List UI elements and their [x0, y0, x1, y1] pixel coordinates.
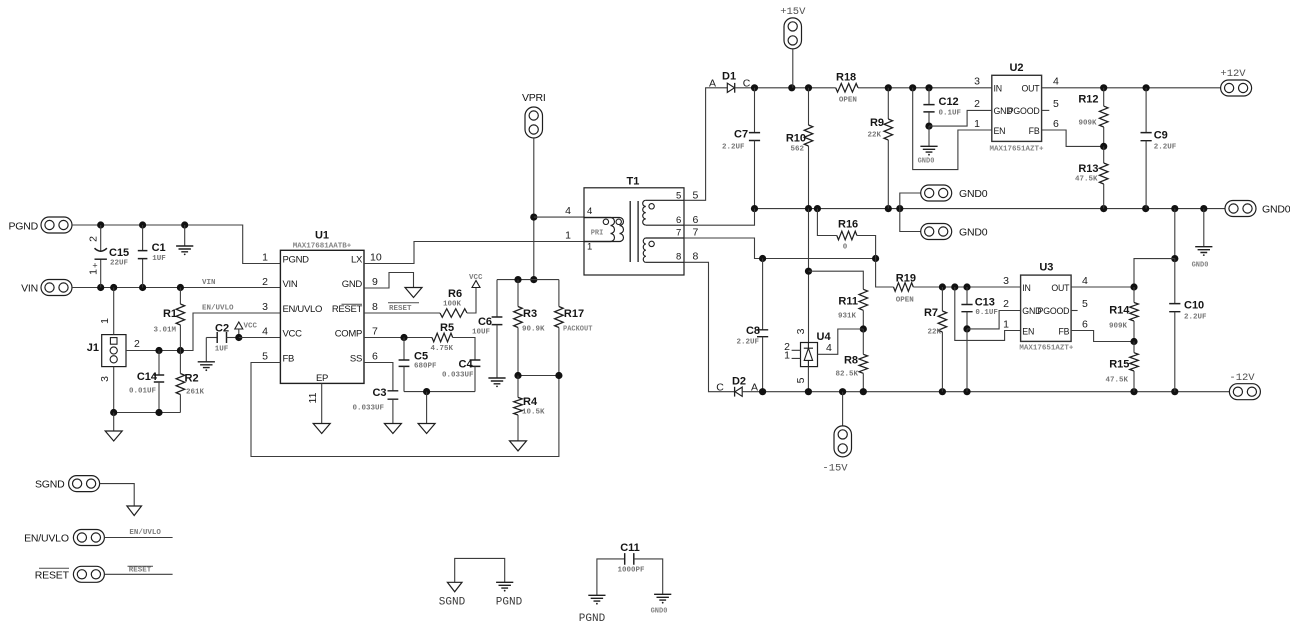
svg-text:680PF: 680PF — [414, 363, 437, 371]
svg-text:C9: C9 — [1154, 130, 1168, 142]
svg-text:C6: C6 — [478, 316, 492, 328]
svg-text:MAX17651AZT+: MAX17651AZT+ — [1019, 345, 1074, 353]
capacitor C11 1000PF — [597, 542, 663, 595]
svg-text:4: 4 — [587, 206, 592, 217]
svg-text:6: 6 — [372, 351, 378, 363]
svg-text:3: 3 — [974, 76, 980, 88]
op-amp U3 MAX17651AZT+ LDO negative — [1003, 262, 1088, 353]
diode D2 — [716, 375, 758, 396]
svg-text:261K: 261K — [186, 389, 205, 397]
svg-text:PRI: PRI — [591, 230, 604, 238]
wire T1 pin 6 to GND0 rail — [684, 209, 755, 226]
svg-text:SS: SS — [350, 354, 362, 365]
wire U3 OUT to R14 — [1071, 286, 1134, 288]
wire U2 OUT rail +12V — [1042, 84, 1221, 91]
svg-text:1: 1 — [262, 252, 268, 264]
wire U4 pin 4 to divider mid — [818, 329, 864, 354]
svg-text:VIN: VIN — [202, 279, 216, 287]
ground PGND symbol at C11 left — [579, 595, 606, 625]
svg-text:RESET: RESET — [35, 569, 70, 581]
svg-text:3: 3 — [262, 301, 268, 313]
wire J1 pin3 ground rail — [110, 367, 180, 417]
connector EN/UVLO — [24, 530, 104, 546]
svg-text:2: 2 — [88, 236, 100, 242]
svg-text:1000PF: 1000PF — [618, 567, 646, 575]
svg-text:0.1UF: 0.1UF — [975, 309, 998, 317]
connector VIN (J-VIN) — [21, 280, 72, 296]
svg-text:EP: EP — [316, 373, 328, 384]
svg-text:7: 7 — [693, 227, 699, 239]
wire RESET net stub — [104, 566, 172, 574]
svg-text:IN: IN — [1022, 283, 1030, 293]
svg-text:+12V: +12V — [1220, 68, 1246, 80]
svg-text:R3: R3 — [523, 308, 537, 320]
capacitor C13 0.1UF — [961, 287, 998, 333]
svg-text:C11: C11 — [620, 542, 640, 554]
wire R19 branch from pin7 rail — [876, 259, 894, 288]
capacitor C4 0.033UF — [442, 359, 480, 392]
resistor R16 0 ohm — [817, 209, 875, 259]
wire GND0 rail — [751, 205, 1225, 212]
svg-text:VCC: VCC — [283, 329, 303, 340]
resistor R6 100K on RESET — [364, 288, 476, 318]
svg-text:PACKOUT: PACKOUT — [563, 326, 592, 334]
wire U1 LX pin 10 to T1 pin 1 — [364, 242, 584, 264]
svg-text:VCC: VCC — [469, 274, 483, 282]
wire J1 pin1 from VIN — [113, 288, 115, 335]
svg-text:J1: J1 — [87, 342, 99, 354]
svg-text:GND: GND — [342, 279, 363, 290]
svg-text:RESET: RESET — [332, 304, 363, 315]
connector -12V — [1229, 372, 1260, 400]
svg-text:PGOOD: PGOOD — [1008, 106, 1040, 116]
svg-text:U2: U2 — [1009, 62, 1023, 74]
svg-text:1: 1 — [565, 230, 571, 242]
svg-text:3: 3 — [99, 376, 111, 382]
svg-text:1: 1 — [974, 118, 980, 130]
svg-text:RESET: RESET — [389, 305, 412, 313]
svg-text:8: 8 — [372, 301, 378, 313]
power VCC arrow at U1 VCC pin — [235, 322, 281, 341]
wire U2 PGOOD stub — [1042, 109, 1050, 111]
svg-text:D1: D1 — [722, 71, 736, 83]
op-amp U2 MAX17651AZT+ LDO — [974, 62, 1059, 154]
svg-text:R2: R2 — [185, 373, 199, 385]
svg-text:3: 3 — [1003, 275, 1009, 287]
svg-text:EN: EN — [994, 126, 1006, 136]
svg-text:2.2UF: 2.2UF — [722, 144, 745, 152]
svg-text:R6: R6 — [448, 288, 462, 300]
svg-text:EN/UVLO: EN/UVLO — [283, 304, 323, 315]
svg-text:562: 562 — [790, 146, 804, 154]
svg-text:0.01UF: 0.01UF — [129, 388, 157, 396]
svg-text:+: + — [92, 261, 97, 271]
svg-text:5: 5 — [1053, 98, 1059, 110]
svg-text:1: 1 — [99, 318, 111, 324]
svg-text:6: 6 — [1082, 319, 1088, 331]
ground SGND triangle below J1 — [105, 413, 122, 442]
svg-text:FB: FB — [283, 354, 295, 365]
wire U1 EP pin 11 to ground — [307, 383, 330, 433]
svg-text:1UF: 1UF — [215, 346, 229, 354]
svg-text:3: 3 — [795, 328, 807, 334]
svg-text:PGND: PGND — [283, 255, 310, 266]
capacitor C8 2.2UF — [736, 259, 768, 392]
svg-text:909K: 909K — [1078, 120, 1097, 128]
svg-text:PGND: PGND — [8, 221, 38, 233]
svg-text:10.5K: 10.5K — [522, 409, 545, 417]
svg-text:EN/UVLO: EN/UVLO — [24, 533, 69, 545]
connector GND0 right — [1225, 201, 1290, 217]
wire GND0 to U3 OUT node — [1130, 209, 1178, 291]
svg-text:2.2UF: 2.2UF — [1184, 314, 1207, 322]
svg-text:C1: C1 — [152, 242, 166, 254]
svg-text:1: 1 — [784, 350, 790, 362]
svg-text:R11: R11 — [838, 296, 858, 308]
svg-text:IN: IN — [994, 84, 1002, 94]
svg-text:GND0: GND0 — [918, 158, 935, 166]
svg-text:0.1UF: 0.1UF — [939, 110, 962, 118]
resistor R1 3.01M — [153, 288, 184, 351]
wire EN/UVLO net stub — [104, 529, 172, 538]
svg-text:R16: R16 — [838, 219, 858, 231]
resistor R13 47.5K — [1075, 146, 1108, 208]
svg-text:MAX17681AATB+: MAX17681AATB+ — [293, 242, 352, 250]
resistor R17 PACKOUT — [555, 280, 593, 376]
svg-text:R13: R13 — [1078, 163, 1098, 175]
svg-text:R4: R4 — [523, 396, 538, 408]
wire R10 lower column / U4 ref node — [805, 209, 812, 343]
svg-text:GND0: GND0 — [1262, 204, 1290, 216]
capacitor C9 2.2UF — [1141, 88, 1177, 209]
svg-text:R5: R5 — [440, 322, 454, 334]
resistor R3 90.9K — [514, 280, 545, 376]
svg-text:47.5K: 47.5K — [1075, 176, 1098, 184]
wire U3 FB to divider — [1071, 331, 1134, 342]
svg-text:22K: 22K — [927, 329, 941, 337]
svg-text:4: 4 — [565, 205, 571, 217]
wire J1 pin2 node EN/UVLO divider — [126, 305, 280, 355]
svg-text:5: 5 — [693, 190, 699, 202]
svg-text:EN: EN — [1022, 327, 1034, 337]
svg-text:9: 9 — [372, 276, 378, 288]
svg-text:1UF: 1UF — [152, 255, 166, 263]
svg-text:0: 0 — [843, 244, 848, 252]
resistor R19 OPEN — [894, 273, 1021, 305]
svg-text:0.033UF: 0.033UF — [442, 372, 474, 380]
svg-text:C2: C2 — [215, 323, 229, 335]
svg-text:2.2UF: 2.2UF — [736, 339, 759, 347]
resistor R5 4.75K COMP network — [364, 322, 475, 360]
svg-text:8: 8 — [693, 251, 699, 263]
resistor R15 47.5K — [1105, 342, 1138, 392]
resistor R11 931K — [838, 289, 868, 332]
svg-text:82.5K: 82.5K — [835, 371, 858, 379]
wire VPRI to primary node — [530, 138, 537, 283]
connector J1 3-pin header — [87, 318, 140, 382]
svg-text:R18: R18 — [836, 72, 856, 84]
ground GND0 symbol at C11 right — [651, 594, 672, 615]
capacitor C6 10UF — [472, 280, 518, 378]
wire VPRI divider node — [514, 276, 559, 283]
wire T1 pin 4 from VPRI — [534, 216, 584, 218]
svg-text:4: 4 — [826, 342, 832, 354]
svg-text:4: 4 — [1082, 275, 1088, 287]
wire to R11 top — [809, 271, 864, 289]
wire U3 EN tie to input rail — [955, 287, 1021, 340]
diode D1 — [709, 71, 751, 93]
svg-text:90.9K: 90.9K — [522, 326, 545, 334]
wire R3/R17 bottom junction — [514, 372, 562, 379]
svg-text:GND0: GND0 — [959, 227, 988, 239]
resistor R9 22K — [867, 88, 892, 209]
svg-text:GND0: GND0 — [959, 188, 988, 200]
svg-text:SGND: SGND — [439, 597, 466, 609]
svg-text:R10: R10 — [786, 133, 806, 145]
wire T1 pin 7 rail — [684, 238, 879, 262]
svg-text:EN/UVLO: EN/UVLO — [202, 305, 234, 313]
connector GND0 upper — [900, 185, 988, 209]
svg-text:22UF: 22UF — [110, 260, 129, 268]
connector +12V — [1220, 68, 1251, 96]
svg-text:22K: 22K — [867, 132, 881, 140]
resistor R8 82.5K — [835, 329, 867, 392]
capacitor C7 2.2UF — [722, 88, 760, 209]
svg-text:+15V: +15V — [780, 6, 806, 18]
wire VIN rail to U1 pin 2 — [72, 279, 280, 291]
svg-text:5: 5 — [795, 377, 807, 383]
transformer T1 — [565, 176, 698, 276]
svg-text:RESET: RESET — [129, 567, 152, 575]
wire U3 PGOOD stub — [1071, 310, 1078, 312]
op-amp U1 MAX17681AATB+ dc-dc controller — [262, 230, 382, 384]
svg-text:FB: FB — [1029, 126, 1040, 136]
svg-text:-15V: -15V — [822, 463, 848, 475]
svg-text:2: 2 — [262, 276, 268, 288]
wire T1 pin 8 to D2 — [684, 262, 734, 391]
wire C12 node to U2 GND pin — [929, 110, 992, 126]
svg-text:GND0: GND0 — [1192, 262, 1209, 270]
ground PGND symbol on input rail — [176, 225, 193, 255]
svg-text:7: 7 — [372, 326, 378, 338]
transistor U4 shunt reference — [784, 328, 832, 383]
svg-text:47.5K: 47.5K — [1105, 377, 1128, 385]
svg-text:5: 5 — [1082, 298, 1088, 310]
svg-text:C5: C5 — [414, 351, 428, 363]
connector SGND — [35, 476, 100, 492]
connector -15V — [822, 392, 851, 475]
svg-text:C10: C10 — [1184, 300, 1204, 312]
svg-text:10UF: 10UF — [472, 329, 491, 337]
capacitor C10 2.2UF — [1169, 259, 1207, 392]
svg-text:2: 2 — [974, 98, 980, 110]
resistor R18 OPEN — [836, 72, 858, 105]
svg-text:C3: C3 — [372, 387, 386, 399]
wire SGND to ground — [100, 484, 142, 516]
svg-text:OUT: OUT — [1051, 283, 1070, 293]
svg-text:909K: 909K — [1109, 323, 1128, 331]
svg-text:6: 6 — [693, 214, 699, 226]
svg-text:VPRI: VPRI — [522, 92, 546, 104]
svg-text:4: 4 — [262, 326, 268, 338]
wire -15V -12V rail — [742, 388, 1229, 395]
wire U2 FB to divider — [1042, 130, 1104, 146]
svg-text:C: C — [716, 381, 724, 393]
svg-text:C8: C8 — [746, 325, 760, 337]
svg-text:8: 8 — [676, 252, 681, 263]
power VCC arrow at R6 — [469, 274, 483, 288]
resistor R12 909K — [1078, 88, 1108, 150]
svg-text:VIN: VIN — [21, 283, 38, 295]
capacitor C12 0.1UF — [923, 88, 961, 130]
wire U4 pin 5 to -15V rail — [807, 367, 809, 392]
capacitor C14 0.01UF — [129, 351, 164, 413]
connector PGND (J-PGND) — [8, 217, 72, 233]
svg-text:MAX17651AZT+: MAX17651AZT+ — [989, 146, 1044, 154]
resistor R2 261K — [176, 351, 204, 413]
svg-text:R8: R8 — [844, 355, 858, 367]
svg-text:10: 10 — [370, 252, 382, 264]
svg-text:C13: C13 — [975, 297, 995, 309]
svg-text:R9: R9 — [870, 117, 884, 129]
svg-text:PGOOD: PGOOD — [1038, 306, 1070, 316]
svg-text:FB: FB — [1058, 327, 1069, 337]
svg-text:1: 1 — [1003, 319, 1009, 331]
wire C13 node to -12V rail — [966, 329, 968, 392]
svg-text:OUT: OUT — [1022, 84, 1041, 94]
svg-text:GND0: GND0 — [651, 608, 668, 616]
svg-text:D2: D2 — [732, 375, 746, 387]
wire +15V rail — [735, 84, 992, 91]
wire PGND rail to U1 pin 1 — [72, 221, 280, 263]
svg-text:PGND: PGND — [496, 597, 523, 609]
resistor R4 10.5K — [510, 376, 546, 451]
svg-text:7: 7 — [676, 228, 681, 239]
ground SGND symbol at C2 — [198, 338, 215, 372]
svg-text:5: 5 — [676, 191, 681, 202]
svg-text:4.75K: 4.75K — [431, 345, 454, 353]
svg-text:0.033UF: 0.033UF — [352, 405, 384, 413]
svg-text:C15: C15 — [109, 247, 129, 259]
svg-text:5: 5 — [262, 351, 268, 363]
svg-text:PGND: PGND — [579, 613, 606, 625]
resistor R10 562 — [786, 88, 813, 209]
capacitor C2 1UF — [206, 323, 239, 354]
svg-text:C7: C7 — [734, 129, 748, 141]
svg-text:VIN: VIN — [283, 279, 298, 290]
ground GND0 symbol at C12 — [918, 126, 938, 165]
svg-text:LX: LX — [351, 255, 363, 266]
svg-text:1: 1 — [587, 242, 592, 253]
svg-text:100K: 100K — [443, 301, 462, 309]
svg-text:T1: T1 — [626, 176, 639, 188]
svg-text:R17: R17 — [564, 308, 584, 320]
svg-text:3.01M: 3.01M — [153, 327, 176, 335]
svg-text:OPEN: OPEN — [839, 97, 857, 105]
svg-text:6: 6 — [676, 215, 681, 226]
svg-text:R12: R12 — [1078, 94, 1098, 106]
svg-text:SGND: SGND — [35, 479, 65, 491]
svg-text:R1: R1 — [163, 308, 177, 320]
connector VPRI — [522, 92, 546, 138]
svg-text:931K: 931K — [838, 313, 857, 321]
svg-text:2.2UF: 2.2UF — [1154, 144, 1177, 152]
connector RESET — [35, 566, 105, 582]
svg-text:EN/UVLO: EN/UVLO — [129, 529, 161, 537]
svg-text:A: A — [709, 78, 716, 90]
wire U2 EN tie to input rail — [913, 88, 992, 170]
capacitor C1 1UF — [138, 225, 167, 288]
ground SGND symbol at C6 — [488, 378, 505, 384]
capacitor C5 680PF — [399, 338, 437, 392]
wire C13 node to U3 GND pin — [967, 311, 1021, 329]
wire U1 GND pin 9 to ground triangle — [364, 273, 422, 298]
svg-text:C12: C12 — [939, 96, 959, 108]
svg-text:R15: R15 — [1109, 359, 1129, 371]
svg-text:4: 4 — [1053, 76, 1059, 88]
svg-text:11: 11 — [307, 392, 319, 403]
svg-text:R19: R19 — [896, 273, 916, 285]
wire T1 pin 5 to D1 — [684, 88, 727, 201]
capacitor C3 0.033UF on SS — [352, 363, 401, 434]
svg-text:6: 6 — [1053, 118, 1059, 130]
svg-text:2: 2 — [134, 338, 140, 350]
svg-text:COMP: COMP — [335, 329, 362, 340]
svg-text:C14: C14 — [137, 371, 158, 383]
capacitor C15 22UF polarized — [88, 225, 130, 288]
svg-text:OPEN: OPEN — [896, 297, 914, 305]
wire U1 FB pin 5 feedback loop — [251, 363, 559, 457]
svg-text:-12V: -12V — [1229, 372, 1255, 384]
svg-text:VCC: VCC — [244, 323, 258, 331]
svg-text:U3: U3 — [1039, 262, 1053, 274]
resistor R7 22K — [924, 287, 947, 392]
wire C5/C4 bottom node to ground — [404, 388, 475, 434]
net tie SGND-PGND — [439, 558, 523, 608]
svg-text:R14: R14 — [1109, 305, 1130, 317]
svg-text:C4: C4 — [459, 359, 474, 371]
svg-text:R7: R7 — [924, 307, 938, 319]
resistor R14 909K — [1109, 287, 1138, 345]
svg-text:U1: U1 — [315, 230, 329, 242]
ground GND0 symbol right — [1192, 209, 1213, 270]
svg-text:2: 2 — [1003, 298, 1009, 310]
connector GND0 lower — [900, 209, 988, 240]
connector +15V — [780, 6, 806, 88]
